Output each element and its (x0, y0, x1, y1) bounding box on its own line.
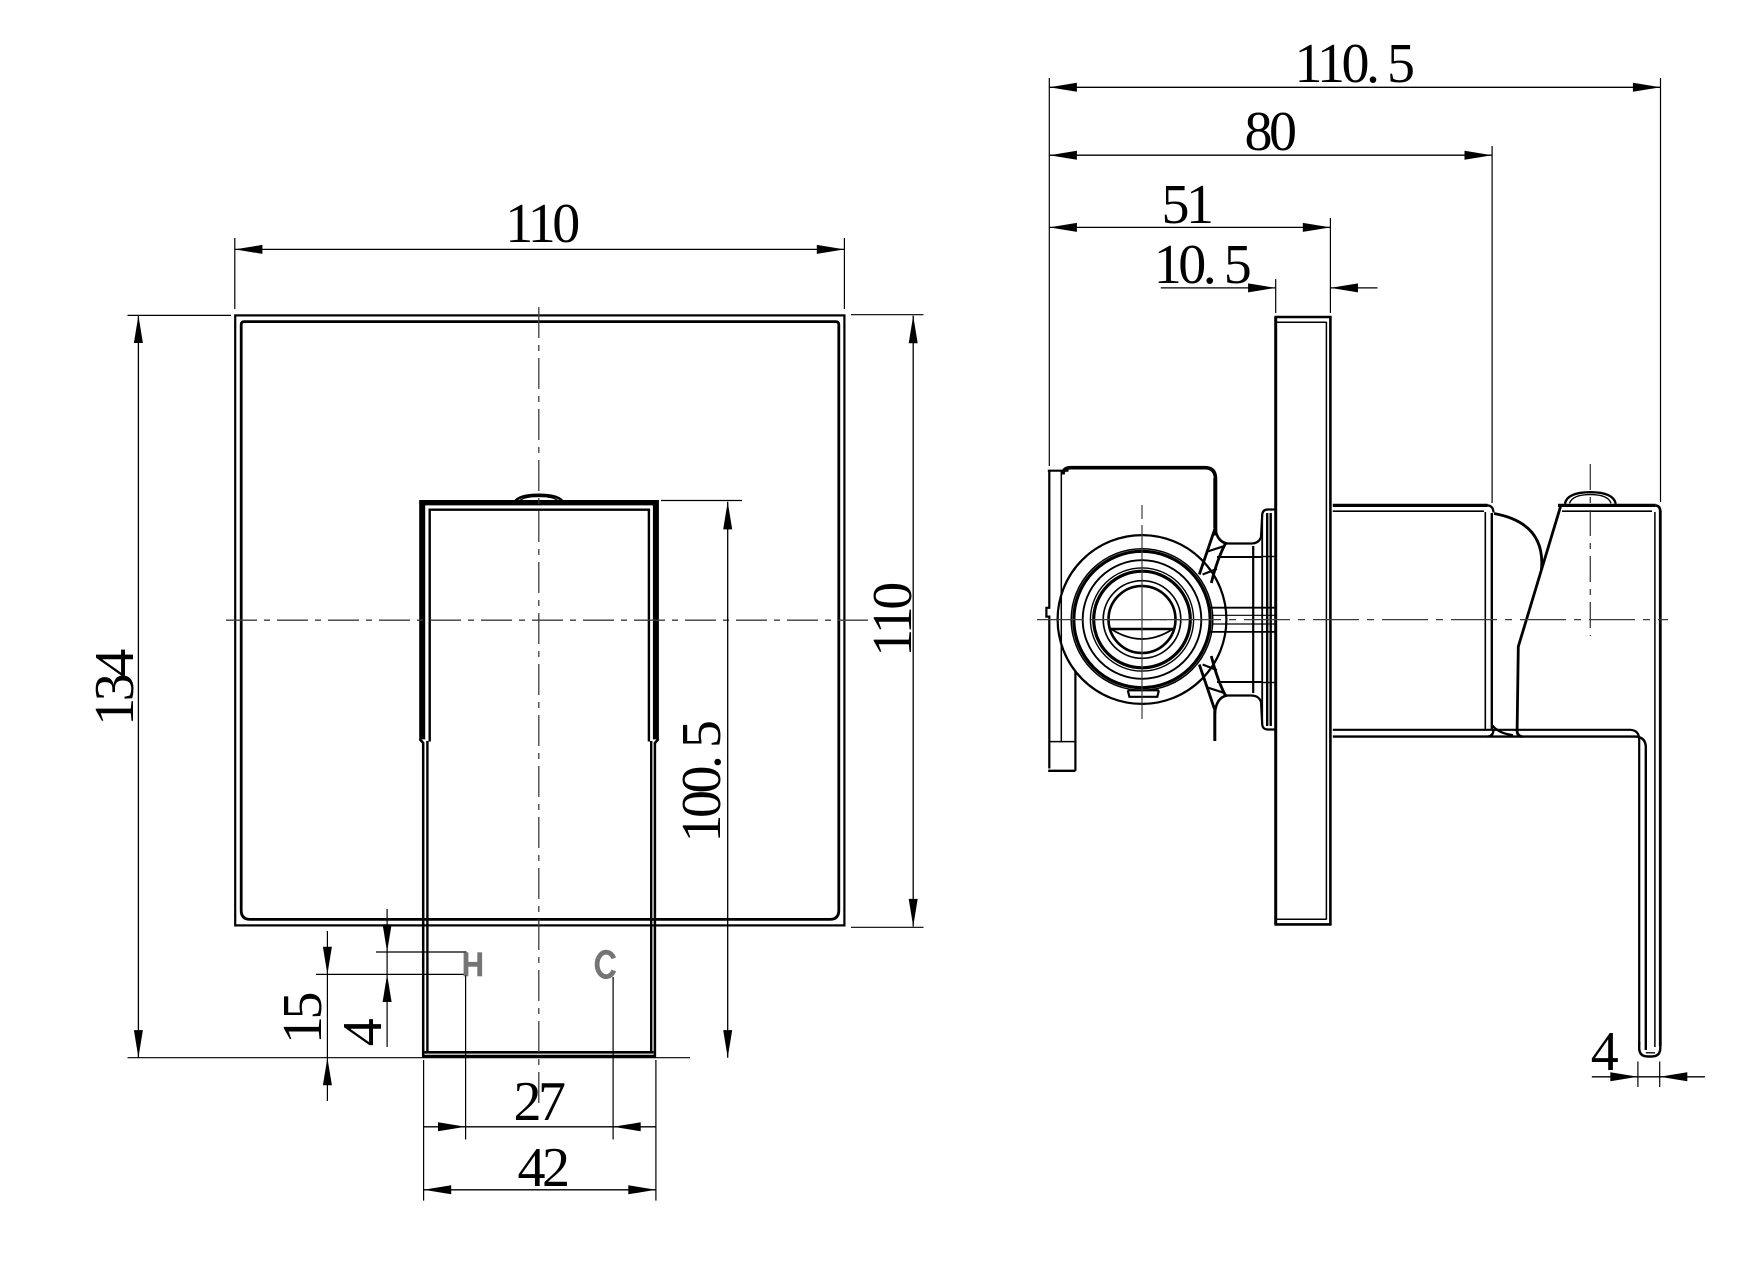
screw dome on lever (1565, 492, 1616, 504)
centerline vertical (538, 307, 540, 1103)
svg-text:110. 5: 110. 5 (1295, 33, 1413, 95)
H label (466, 952, 480, 976)
center stem pipe (1209, 608, 1276, 632)
dim 110 right (851, 315, 924, 928)
inlet boss circles (1058, 535, 1227, 704)
dim 10.5 (1154, 234, 1378, 313)
underside of arm into blade (1333, 730, 1639, 1045)
svg-text:27: 27 (514, 1071, 566, 1133)
dim 15 (272, 931, 334, 1101)
dim 110.5 (1049, 33, 1660, 502)
svg-text:42: 42 (518, 1137, 568, 1199)
svg-text:110: 110 (505, 193, 578, 255)
svg-text:51: 51 (1162, 174, 1212, 236)
handle outer outline (419, 500, 658, 1057)
handle hub cylinder (1333, 505, 1494, 736)
upper connector pipe (1199, 478, 1275, 583)
dim 134 left (84, 315, 690, 1057)
lower connector pipe (1199, 656, 1275, 741)
plate outer square (235, 315, 844, 925)
dim 110 top (235, 193, 845, 309)
centerline horizontal (226, 619, 868, 621)
centerlines (1037, 619, 1668, 621)
dim 42 (424, 1060, 656, 1201)
svg-text:110: 110 (862, 584, 924, 657)
svg-text:4: 4 (332, 1018, 394, 1046)
svg-text:10. 5: 10. 5 (1154, 234, 1250, 296)
dim 100.5 (661, 501, 742, 1058)
bore chord and cup (1111, 628, 1174, 630)
H extension line (465, 976, 467, 1140)
bottom plug (1128, 690, 1159, 697)
dim 27 (424, 1071, 656, 1133)
set screw dome on handle top (515, 495, 564, 502)
valve body block (1063, 468, 1216, 536)
svg-text:134: 134 (84, 649, 146, 726)
C label (597, 952, 614, 976)
dim 51 (1049, 174, 1330, 313)
plate inner square (241, 322, 839, 920)
svg-text:15: 15 (272, 994, 334, 1045)
handle inner line (427, 510, 651, 1052)
lever top arm and blade (1333, 505, 1661, 1056)
svg-text:100. 5: 100. 5 (671, 722, 733, 843)
blade tip (1639, 1042, 1660, 1057)
wall plate side profile (1274, 317, 1331, 924)
svg-text:4: 4 (1591, 1021, 1619, 1083)
dim 4 (side) (1591, 1021, 1705, 1087)
mounting bracket (1046, 471, 1075, 771)
dim 4 (front) (316, 909, 467, 1047)
svg-text:80: 80 (1245, 101, 1296, 163)
C extension line (612, 977, 614, 1140)
lever boss arcs (1494, 514, 1542, 571)
dim 80 (1049, 101, 1492, 503)
lever front slant (1517, 505, 1561, 736)
collar against plate (1253, 513, 1271, 726)
